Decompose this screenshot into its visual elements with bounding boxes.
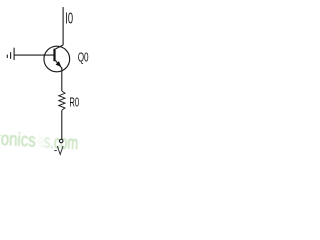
watermark	[0, 129, 79, 155]
svg-text:I0: I0	[65, 11, 73, 28]
wire emitter	[61, 68, 63, 91]
wire collector	[62, 7, 64, 45]
svg-text:Q0: Q0	[78, 50, 89, 65]
svg-text:R0: R0	[69, 95, 79, 110]
resistor R0	[59, 91, 65, 110]
wire base	[14, 54, 53, 56]
transistor Q0	[44, 45, 70, 72]
wire to -V	[61, 110, 63, 139]
svg-text:ronics: ronics	[0, 129, 36, 152]
ground	[7, 48, 14, 60]
label -V	[54, 146, 63, 154]
node -V terminal	[59, 139, 63, 143]
